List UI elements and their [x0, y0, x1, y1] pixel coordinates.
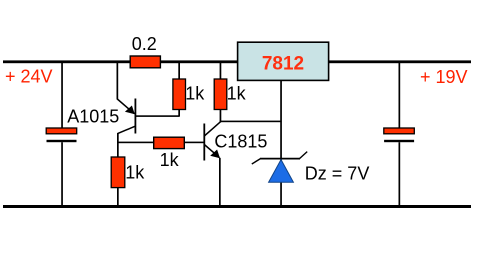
svg-text:0.2: 0.2 — [132, 34, 157, 54]
svg-text:A1015: A1015 — [67, 107, 119, 127]
transistor Q1 A1015 (PNP) — [117, 99, 136, 134]
zener diode Dz — [252, 152, 307, 183]
wire C-in top lead — [61, 63, 63, 129]
svg-text:1k: 1k — [160, 150, 180, 170]
wire R2 top lead — [178, 63, 180, 80]
wire top rail +24V/+19V — [3, 60, 471, 63]
wire Q1 collector vertical down — [117, 133, 119, 206]
svg-text:1k: 1k — [227, 83, 247, 103]
resistor R3 1k horizontal — [154, 137, 185, 148]
resistor R2 1k vertical — [173, 79, 186, 110]
wire bottom rail (ground return) — [3, 205, 471, 208]
wire Q2 collector node to regulator ground pin — [220, 121, 282, 123]
wire C-out top lead — [399, 63, 401, 129]
resistor R5 1k vertical — [214, 79, 227, 110]
svg-text:1k: 1k — [185, 83, 205, 103]
wire Q1 base to R2 — [136, 115, 180, 117]
wire R2 bottom lead — [178, 110, 180, 117]
svg-text:1k: 1k — [125, 162, 145, 182]
svg-text:+ 24V: + 24V — [5, 67, 53, 87]
wire Q2 emitter down to ground rail — [219, 158, 221, 206]
svg-text:+ 19V: + 19V — [420, 67, 468, 87]
svg-text:7812: 7812 — [262, 54, 304, 75]
capacitor C-in — [46, 128, 76, 142]
capacitor C-out — [384, 128, 415, 142]
resistor R1 0.2 (series, on rail) — [130, 56, 160, 68]
wire C-out bottom lead — [399, 142, 401, 206]
wire C-in bottom lead — [61, 142, 63, 206]
svg-text:C1815: C1815 — [214, 132, 267, 152]
wire R5 bottom lead — [220, 110, 222, 123]
svg-text:Dz = 7V: Dz = 7V — [305, 163, 370, 183]
transistor Q2 C1815 (NPN) — [203, 122, 220, 161]
resistor R4 1k vertical (Q1 collector load) — [111, 157, 125, 188]
wire collector node to Q2 base — [117, 142, 205, 144]
regulator U1 7812 — [238, 42, 329, 80]
wire R5 top lead — [220, 63, 222, 80]
wire U1 ground pin / zener Dz lead — [280, 80, 282, 205]
wire Q1 emitter vertical — [117, 63, 119, 100]
